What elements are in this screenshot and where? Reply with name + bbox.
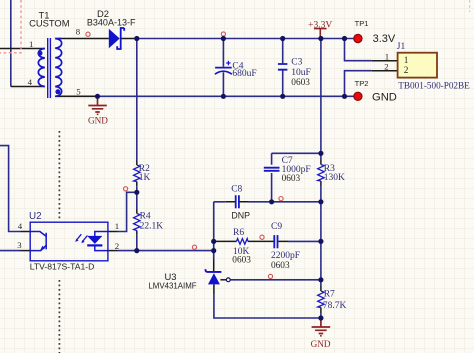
svg-text:130K: 130K (324, 173, 345, 183)
svg-text:TB001-500-P02BE: TB001-500-P02BE (398, 81, 470, 91)
svg-text:R4: R4 (140, 212, 151, 222)
SECTION: wires (0, 0, 372, 318)
wire U3 ref row to right rail (230, 279, 321, 281)
optocoupler U2 body (30, 222, 108, 261)
wire C7 branch vertical (271, 153, 273, 202)
black pin leads (0, 39, 398, 314)
off-grid marker on row A (192, 245, 196, 249)
pin D2 cathode lead (122, 38, 137, 40)
pin U2.3 lead (21, 250, 31, 252)
red dashed directive top left (0, 0, 21, 53)
resistor R2 zigzag (134, 165, 140, 182)
svg-text:0603: 0603 (291, 78, 310, 88)
svg-text:LMV431AIMF: LMV431AIMF (148, 282, 196, 291)
svg-text:TP2: TP2 (355, 79, 369, 88)
wire C8 row (214, 201, 321, 203)
wire R2 chain from diode junction (136, 39, 138, 251)
optocoupler U2 phototransistor (30, 232, 46, 251)
svg-text:10uF: 10uF (291, 68, 311, 78)
capacitor C8 plates (236, 195, 239, 208)
wire bottom GND rail (55, 95, 354, 97)
svg-text:R6: R6 (233, 228, 244, 238)
junction U3 anode right (318, 315, 323, 320)
junction C7 bottom on C8 row (269, 199, 274, 204)
wire J1 pin1 branch (345, 39, 372, 61)
svg-text:0603: 0603 (271, 261, 290, 271)
wire corner to U2 pin1 (118, 192, 137, 231)
svg-text:8: 8 (76, 27, 81, 37)
svg-text:C3: C3 (291, 58, 302, 68)
svg-text:78.7K: 78.7K (323, 301, 347, 311)
junction C8 row right (318, 199, 323, 204)
capacitor C9 plates (274, 235, 277, 248)
pin row B leads around R6 and C9 (214, 240, 288, 242)
pin T1.5 lead (58, 95, 97, 97)
svg-text:5: 5 (76, 86, 81, 96)
resistor R7 zigzag (318, 291, 324, 308)
capacitor C7 plates (264, 168, 280, 171)
svg-text:2200pF: 2200pF (271, 251, 300, 261)
transformer T1 secondary top lead (55, 38, 61, 40)
pin R3 stubs (320, 160, 322, 187)
test point TP1 (354, 34, 362, 42)
capacitor C4 curved plate (215, 71, 232, 74)
pin J1.1 lead (372, 60, 398, 62)
off-grid marker near D2 (86, 32, 90, 36)
junction C4 top (221, 36, 226, 41)
off-grid marker at U2 pin1 corner (124, 187, 128, 191)
junction J1 pin2 branch (342, 94, 347, 99)
svg-text:4: 4 (28, 77, 33, 87)
svg-text:GND: GND (88, 115, 108, 125)
dotted separator line (58, 131, 60, 353)
svg-text:DNP: DNP (231, 211, 250, 221)
wire row A (U2 pin2 to U3 cathode column) (118, 250, 214, 252)
diode D2 schottky cathode bar (117, 28, 124, 49)
svg-text:1: 1 (115, 221, 119, 231)
svg-text:C9: C9 (271, 222, 282, 232)
pin R4 stubs (136, 209, 138, 235)
svg-text:1K: 1K (139, 173, 151, 183)
wire C3 branch (282, 39, 284, 97)
optocoupler U2 LED vertical link (95, 232, 108, 251)
svg-text:B340A-13-F: B340A-13-F (87, 17, 136, 27)
optocoupler U2 light arrow 2 (83, 236, 88, 242)
pin U3 anode lead (213, 284, 215, 294)
junction C3 top (280, 36, 285, 41)
resistor R6 zigzag (237, 239, 249, 245)
wire U2 pin4 branch to left edge (0, 146, 21, 232)
pin R7 stubs (320, 286, 322, 314)
svg-text:0603: 0603 (282, 174, 301, 184)
svg-text:CUSTOM: CUSTOM (29, 17, 70, 28)
diode D2 triangle (109, 29, 120, 49)
junction row B left (211, 239, 216, 244)
resistor R3 zigzag (318, 165, 324, 182)
svg-text:22.1K: 22.1K (140, 221, 164, 231)
wire U2 pin3 to left edge (0, 250, 21, 252)
svg-text:C8: C8 (231, 185, 242, 195)
wire C7 top row (272, 152, 321, 154)
wire left vertical into T1 primary loop (10, 0, 12, 87)
junction R4 bottom on row A (134, 248, 139, 253)
wire top rail net +3.3V (137, 38, 354, 40)
svg-text:1: 1 (404, 56, 409, 66)
junction row B right (318, 239, 323, 244)
junction row A right (211, 248, 216, 253)
pin T1.1 lead (0, 48, 45, 50)
optocoupler U2 LED cathode bar (87, 244, 102, 246)
resistor R4 zigzag (134, 214, 140, 231)
svg-text:U3: U3 (165, 271, 177, 282)
svg-text:U2: U2 (29, 211, 42, 222)
svg-text:4: 4 (18, 221, 23, 231)
wire J1 pin2 branch (345, 71, 372, 97)
junction C7 top row right (318, 151, 323, 156)
svg-text:J1: J1 (397, 42, 406, 52)
capacitor C4 plus sign (226, 61, 230, 65)
ground symbol GND under T1 (88, 96, 107, 114)
red dashed sliver top right (469, 0, 471, 12)
junction R2/R4/U2 pin1 node (134, 190, 139, 195)
pin U3 ref lead (220, 279, 226, 281)
shunt regulator U3 triangle (208, 273, 220, 284)
transformer T1 primary winding (38, 49, 44, 87)
connector J1 body (398, 53, 437, 78)
svg-text:GND: GND (311, 339, 331, 349)
junction J1 pin1 branch (342, 36, 347, 41)
pin U2.1 lead (108, 231, 118, 233)
pin R2 stubs (136, 161, 138, 187)
svg-text:3.3V: 3.3V (373, 33, 396, 45)
pin U2.4 lead (21, 231, 31, 233)
svg-text:680uF: 680uF (232, 69, 256, 79)
svg-text:2: 2 (115, 241, 119, 251)
junction C3 bottom (280, 94, 285, 99)
svg-text:TP1: TP1 (355, 19, 369, 28)
shunt regulator U3 cathode bar (205, 269, 221, 272)
pin U3 cathode lead (213, 259, 215, 271)
capacitor C3 plates (278, 64, 288, 70)
optocoupler U2 LED triangle (87, 236, 102, 244)
transformer T1 secondary winding (55, 39, 61, 97)
svg-text:R7: R7 (324, 289, 335, 299)
shunt regulator U3 ref open circle (226, 278, 230, 282)
optocoupler U2 light arrow 1 (77, 234, 82, 240)
pin T1.8 / D2 anode lead (58, 38, 109, 40)
svg-text:2: 2 (404, 66, 409, 76)
pin J1.2 lead (372, 70, 398, 72)
svg-text:LTV-817S-TA1-D: LTV-817S-TA1-D (30, 261, 95, 271)
wire C4 branch (222, 39, 224, 97)
pin U2.2 lead (108, 250, 118, 252)
junction +3.3V tap (318, 36, 323, 41)
junction U3 ref right (318, 277, 323, 282)
wire mid vertical column x=213.7 (213, 202, 215, 259)
wire row B segment to right rail (288, 240, 321, 242)
svg-text:GND: GND (372, 92, 397, 104)
svg-text:1: 1 (385, 52, 389, 62)
svg-text:+3.3V: +3.3V (308, 20, 332, 30)
wire right main rail from +3.3V down (320, 39, 322, 319)
transformer T1 primary polarity dot (38, 51, 43, 56)
pin C8 stubs (226, 201, 249, 203)
svg-text:1: 1 (29, 39, 33, 49)
off-grid marker on U3 ref row (268, 274, 272, 278)
svg-text:3: 3 (17, 240, 22, 250)
junction GND stem under T1 (95, 94, 100, 99)
wire U3 anode to bottom corner and right (214, 294, 321, 318)
transformer T1 secondary polarity dot (55, 89, 60, 94)
SECTION: junctions (95, 36, 347, 321)
transformer T1 core (48, 38, 51, 98)
capacitor C4 top plate (215, 67, 232, 69)
off-grid marker on C8 row (279, 197, 283, 201)
pin T1.4 lead (11, 86, 45, 88)
svg-text:2: 2 (384, 62, 388, 72)
junction C4 bottom (221, 94, 226, 99)
optocoupler U2 emitter arrow (40, 246, 45, 251)
junction diode out / R2 top (134, 36, 139, 41)
svg-text:0603: 0603 (232, 256, 251, 266)
off-grid marker on row B (260, 235, 264, 239)
ground symbol GND bottom right (312, 318, 331, 336)
off-grid marker above C4 (221, 32, 225, 36)
power port +3.3V (314, 29, 327, 39)
test point TP2 (354, 92, 362, 100)
